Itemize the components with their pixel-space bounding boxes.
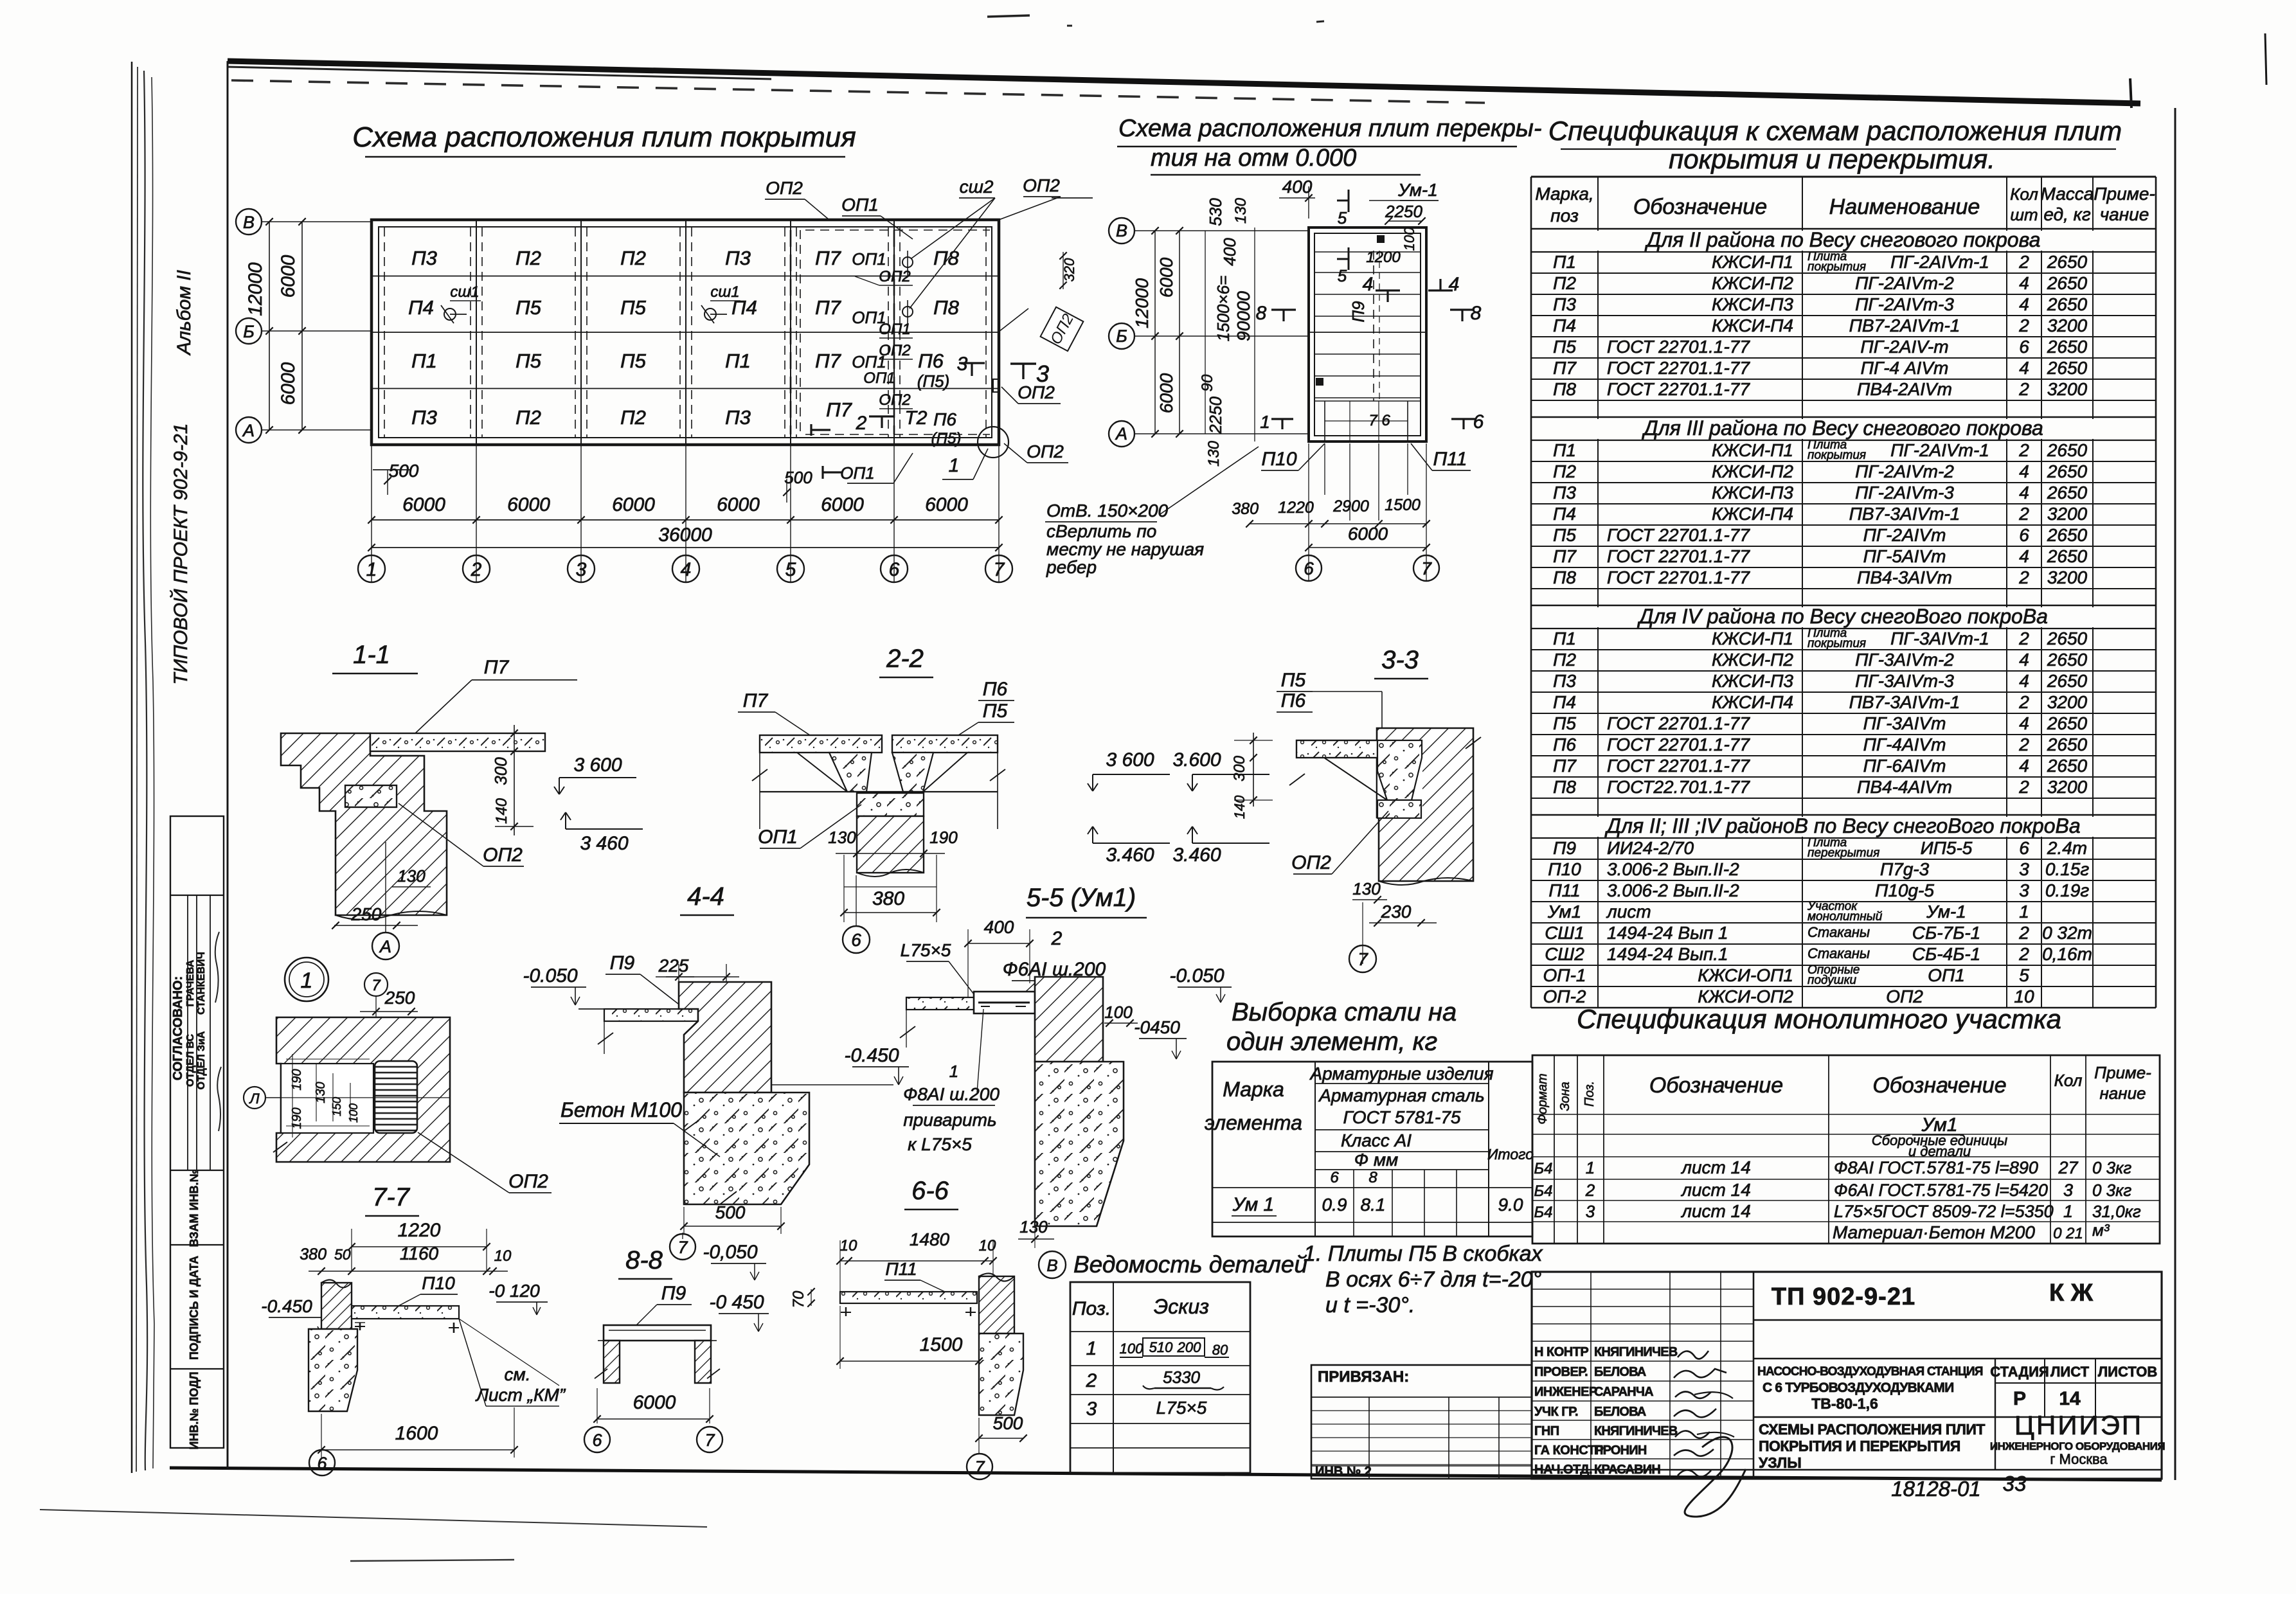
svg-text:и детали: и детали — [1908, 1143, 1971, 1159]
svg-text:10: 10 — [840, 1237, 857, 1254]
svg-text:4: 4 — [2019, 358, 2029, 378]
svg-text:ПВ4-2АIVт: ПВ4-2АIVт — [1857, 379, 1952, 399]
svg-text:ПВ4-3АIVт: ПВ4-3АIVт — [1857, 567, 1952, 587]
svg-text:-0.450: -0.450 — [844, 1045, 899, 1066]
svg-text:400: 400 — [1220, 238, 1239, 266]
svg-text:КЖСИ-П4: КЖСИ-П4 — [1712, 692, 1793, 712]
svg-text:Приме-: Приме- — [2094, 184, 2155, 204]
svg-text:ПГ-6АIVт: ПГ-6АIVт — [1863, 756, 1946, 776]
svg-text:месту не нарушая: месту не нарушая — [1046, 539, 1204, 559]
svg-text:8: 8 — [1471, 303, 1482, 324]
svg-text:Для IV района по Весу снегоВог: Для IV района по Весу снегоВого покроВа — [1637, 605, 2048, 628]
svg-text:ГОСТ 22701.1-77: ГОСТ 22701.1-77 — [1607, 525, 1750, 545]
svg-text:ПРИВЯЗАН:: ПРИВЯЗАН: — [1318, 1368, 1409, 1386]
svg-text:ПГ-3АIVт-1: ПГ-3АIVт-1 — [1890, 629, 1989, 648]
svg-text:3: 3 — [2019, 880, 2029, 900]
svg-text:2.4т: 2.4т — [2047, 838, 2087, 858]
svg-text:г Москва: г Москва — [2050, 1451, 2108, 1467]
svg-text:10: 10 — [494, 1247, 512, 1265]
svg-text:ТИПОВОЙ ПРОЕКТ 902-9-21: ТИПОВОЙ ПРОЕКТ 902-9-21 — [170, 424, 192, 685]
svg-text:Ф8АI ш.200: Ф8АI ш.200 — [903, 1084, 1000, 1104]
svg-text:ТП 902-9-21: ТП 902-9-21 — [1771, 1283, 1915, 1310]
svg-text:1494-24 Вып.1: 1494-24 Вып.1 — [1607, 944, 1728, 964]
svg-text:8.1: 8.1 — [1361, 1195, 1386, 1215]
svg-text:П6: П6 — [1281, 690, 1306, 711]
svg-text:П1: П1 — [1553, 440, 1576, 460]
svg-text:к L75×5: к L75×5 — [908, 1134, 972, 1154]
svg-text:КЖСИ-П3: КЖСИ-П3 — [1712, 483, 1793, 503]
svg-text:Наименование: Наименование — [1829, 195, 1980, 219]
svg-text:3.460: 3.460 — [1106, 844, 1154, 866]
svg-text:СШ1: СШ1 — [1545, 923, 1584, 943]
svg-text:чание: чание — [2100, 204, 2149, 224]
svg-text:А: А — [1115, 424, 1127, 443]
svg-text:Обозначение: Обозначение — [1633, 195, 1767, 219]
svg-text:3: 3 — [1086, 1398, 1097, 1420]
svg-text:С 6 ТУРБОВОЗДУХОДУВКАМИ: С 6 ТУРБОВОЗДУХОДУВКАМИ — [1762, 1380, 1953, 1395]
svg-text:6000: 6000 — [633, 1392, 676, 1413]
svg-text:П7: П7 — [1553, 546, 1577, 566]
svg-text:2650: 2650 — [2047, 273, 2088, 293]
svg-text:П3: П3 — [411, 247, 437, 269]
svg-text:ГОСТ 22701.1-77: ГОСТ 22701.1-77 — [1607, 567, 1750, 587]
svg-text:6000: 6000 — [278, 254, 299, 298]
svg-text:1: 1 — [949, 455, 960, 476]
svg-text:33: 33 — [2003, 1472, 2027, 1495]
svg-text:П11: П11 — [1548, 880, 1580, 900]
svg-text:ПГ-3АIVт-3: ПГ-3АIVт-3 — [1855, 671, 1954, 691]
svg-text:510: 510 — [1149, 1339, 1173, 1355]
svg-text:Л: Л — [248, 1091, 260, 1107]
svg-text:ИП5-5: ИП5-5 — [1921, 838, 1973, 858]
svg-text:П8: П8 — [933, 247, 959, 269]
svg-text:6000: 6000 — [1348, 524, 1388, 544]
svg-text:1500×6=: 1500×6= — [1214, 276, 1233, 342]
svg-text:ОП2: ОП2 — [508, 1171, 548, 1192]
svg-text:380: 380 — [300, 1245, 327, 1263]
svg-text:2: 2 — [2018, 944, 2029, 964]
svg-text:1500: 1500 — [1385, 496, 1421, 514]
svg-text:6: 6 — [2019, 337, 2029, 357]
svg-text:П10: П10 — [1548, 859, 1581, 879]
svg-text:П11: П11 — [1433, 449, 1467, 470]
svg-text:500: 500 — [993, 1413, 1023, 1433]
svg-text:П1: П1 — [1553, 629, 1576, 648]
svg-text:2: 2 — [2018, 692, 2029, 712]
svg-text:НАСОСНО-ВОЗДУХОДУВНАЯ СТАНЦИЯ: НАСОСНО-ВОЗДУХОДУВНАЯ СТАНЦИЯ — [1757, 1365, 1983, 1378]
svg-text:90000: 90000 — [1233, 291, 1253, 341]
svg-text:ИНВ.№ ПОДЛ: ИНВ.№ ПОДЛ — [188, 1371, 201, 1449]
svg-text:1480: 1480 — [910, 1229, 950, 1249]
svg-text:В осях 6÷7 для t=-20°: В осях 6÷7 для t=-20° — [1325, 1267, 1541, 1292]
svg-text:ГОСТ 22701.1-77: ГОСТ 22701.1-77 — [1607, 379, 1750, 399]
svg-text:3-3: 3-3 — [1381, 646, 1419, 674]
svg-text:П5: П5 — [516, 296, 541, 319]
svg-text:1: 1 — [2019, 902, 2029, 922]
svg-text:2: 2 — [2018, 504, 2029, 524]
svg-text:L75×5: L75×5 — [1156, 1398, 1207, 1418]
svg-text:-0.450: -0.450 — [261, 1296, 312, 1316]
svg-text:П7: П7 — [1553, 756, 1577, 776]
svg-text:СХЕМЫ РАСПОЛОЖЕНИЯ ПЛИТ: СХЕМЫ РАСПОЛОЖЕНИЯ ПЛИТ — [1759, 1421, 1985, 1438]
svg-text:50: 50 — [334, 1246, 351, 1263]
svg-text:П10g-5: П10g-5 — [1875, 880, 1934, 900]
svg-text:ОтВ. 150×200: ОтВ. 150×200 — [1046, 501, 1169, 521]
svg-text:3: 3 — [2019, 859, 2029, 879]
svg-text:ГОСТ22.701.1-77: ГОСТ22.701.1-77 — [1607, 777, 1750, 797]
svg-text:ОП2: ОП2 — [879, 342, 910, 359]
svg-text:(П5): (П5) — [917, 371, 950, 391]
svg-text:лист 14: лист 14 — [1680, 1157, 1751, 1177]
svg-text:П6: П6 — [918, 350, 944, 372]
svg-text:П7g-3: П7g-3 — [1880, 859, 1930, 879]
svg-text:П2: П2 — [1553, 650, 1576, 670]
svg-text:1160: 1160 — [400, 1244, 439, 1263]
svg-text:Марка,: Марка, — [1535, 184, 1593, 204]
svg-text:4: 4 — [681, 559, 692, 580]
svg-text:Ум 1: Ум 1 — [1232, 1194, 1274, 1215]
svg-text:-0,050: -0,050 — [703, 1242, 757, 1263]
svg-text:и t =-30°.: и t =-30°. — [1325, 1293, 1415, 1317]
svg-text:6000: 6000 — [402, 494, 445, 515]
svg-text:КЖСИ-П4: КЖСИ-П4 — [1712, 316, 1793, 335]
svg-text:5: 5 — [2019, 965, 2029, 985]
svg-text:1. Плиты П5 В скобках: 1. Плиты П5 В скобках — [1304, 1242, 1543, 1266]
svg-text:L75×5ГОСТ 8509-72 l=5350: L75×5ГОСТ 8509-72 l=5350 — [1834, 1202, 2054, 1221]
svg-text:ОП2: ОП2 — [483, 844, 523, 866]
svg-text:8: 8 — [1256, 303, 1267, 324]
svg-text:8-8: 8-8 — [625, 1246, 663, 1274]
svg-text:70: 70 — [790, 1290, 807, 1308]
svg-text:8: 8 — [1368, 1169, 1377, 1186]
svg-text:Кол: Кол — [2010, 184, 2038, 204]
svg-text:Р: Р — [2013, 1388, 2026, 1409]
svg-text:12000: 12000 — [1132, 278, 1152, 328]
svg-text:КЖСИ-П2: КЖСИ-П2 — [1712, 461, 1793, 481]
svg-text:190: 190 — [929, 828, 958, 847]
svg-text:БЕЛОВА: БЕЛОВА — [1594, 1405, 1646, 1419]
svg-text:2650: 2650 — [2047, 629, 2088, 648]
svg-text:3 600: 3 600 — [573, 754, 622, 776]
svg-text:Спецификация монолитного участ: Спецификация монолитного участка — [1577, 1004, 2061, 1034]
svg-text:П6: П6 — [983, 679, 1008, 700]
svg-text:1: 1 — [366, 559, 377, 580]
svg-text:ГОСТ 22701.1-77: ГОСТ 22701.1-77 — [1607, 546, 1750, 566]
svg-text:ПВ7-2АIVт-1: ПВ7-2АIVт-1 — [1849, 316, 1960, 335]
svg-text:500: 500 — [389, 461, 419, 481]
svg-text:П9: П9 — [1349, 301, 1368, 322]
svg-text:90: 90 — [1199, 374, 1216, 391]
svg-text:КЖСИ-П1: КЖСИ-П1 — [1712, 440, 1793, 460]
svg-text:36000: 36000 — [658, 524, 712, 546]
svg-text:2250: 2250 — [1206, 397, 1225, 434]
svg-text:ОП1: ОП1 — [1928, 965, 1965, 985]
svg-text:6000: 6000 — [717, 494, 760, 515]
svg-text:ОП2: ОП2 — [1023, 175, 1060, 195]
svg-text:Арматурная сталь: Арматурная сталь — [1318, 1085, 1484, 1105]
svg-text:3: 3 — [1586, 1202, 1595, 1221]
svg-text:1: 1 — [301, 968, 313, 993]
svg-text:1: 1 — [1586, 1158, 1595, 1177]
svg-text:7: 7 — [1358, 949, 1368, 969]
svg-text:4-4: 4-4 — [687, 882, 724, 911]
svg-text:4: 4 — [2019, 483, 2029, 503]
svg-text:Выборка стали на: Выборка стали на — [1232, 998, 1457, 1026]
svg-text:КЖСИ-П3: КЖСИ-П3 — [1712, 294, 1793, 314]
svg-text:Альбом II: Альбом II — [174, 270, 195, 356]
svg-text:П4: П4 — [408, 296, 434, 319]
svg-text:2: 2 — [2018, 923, 2029, 943]
svg-text:ПГ-2АIVт-1: ПГ-2АIVт-1 — [1890, 252, 1989, 272]
svg-text:Б4: Б4 — [1534, 1182, 1553, 1200]
svg-text:ОП1: ОП1 — [863, 370, 895, 387]
svg-text:Марка: Марка — [1223, 1078, 1284, 1101]
svg-text:14: 14 — [2059, 1388, 2081, 1409]
svg-text:0.9: 0.9 — [1322, 1195, 1347, 1215]
svg-text:0 21: 0 21 — [2053, 1225, 2083, 1242]
svg-text:0 3кг: 0 3кг — [2092, 1158, 2131, 1177]
svg-text:Б: Б — [243, 322, 255, 341]
svg-text:1: 1 — [949, 1062, 958, 1081]
svg-text:3 600: 3 600 — [1106, 749, 1154, 771]
svg-text:тия на отм 0.000: тия на отм 0.000 — [1151, 145, 1356, 172]
svg-text:БЕЛОВА: БЕЛОВА — [1594, 1365, 1646, 1379]
svg-text:Для III района по Весу снегово: Для III района по Весу снегового покрова — [1642, 416, 2043, 440]
svg-text:1494-24 Вып 1: 1494-24 Вып 1 — [1607, 923, 1728, 943]
svg-text:ПГ-4АIVт: ПГ-4АIVт — [1863, 735, 1946, 754]
svg-text:18128-01: 18128-01 — [1891, 1477, 1980, 1501]
svg-text:П3: П3 — [1553, 671, 1576, 691]
svg-text:ОП-1: ОП-1 — [1543, 965, 1586, 985]
svg-text:ПГ-2АIVт-3: ПГ-2АIVт-3 — [1855, 294, 1954, 314]
svg-text:6: 6 — [889, 559, 900, 580]
svg-text:Кол: Кол — [2054, 1071, 2083, 1090]
svg-text:ИНЖЕНЕР: ИНЖЕНЕР — [1534, 1385, 1597, 1399]
svg-text:500: 500 — [715, 1202, 746, 1222]
svg-text:ОП2: ОП2 — [1291, 852, 1331, 873]
svg-text:6000: 6000 — [507, 494, 550, 515]
svg-text:А: А — [379, 937, 391, 956]
svg-text:монолитный: монолитный — [1807, 910, 1883, 923]
svg-text:5330: 5330 — [1163, 1368, 1200, 1387]
svg-text:7-7: 7-7 — [372, 1183, 411, 1211]
svg-text:П9: П9 — [661, 1283, 686, 1304]
svg-text:ПГ-3АIVт: ПГ-3АIVт — [1863, 713, 1946, 733]
svg-text:3200: 3200 — [2047, 316, 2088, 335]
svg-text:К Ж: К Ж — [2049, 1280, 2094, 1307]
svg-text:покрытия: покрытия — [1807, 260, 1866, 274]
svg-text:П6: П6 — [933, 409, 956, 429]
svg-text:один элемент, кг: один элемент, кг — [1226, 1028, 1437, 1056]
svg-text:ГОСТ 5781-75: ГОСТ 5781-75 — [1343, 1107, 1460, 1127]
svg-text:6: 6 — [592, 1431, 602, 1450]
svg-text:Б: Б — [1116, 326, 1127, 346]
svg-text:ОП2: ОП2 — [1018, 382, 1055, 402]
svg-text:400: 400 — [1282, 177, 1313, 197]
svg-text:ПГ-4 АIVт: ПГ-4 АIVт — [1861, 358, 1949, 378]
svg-text:6: 6 — [2019, 525, 2029, 545]
svg-text:ГОСТ 22701.1-77: ГОСТ 22701.1-77 — [1607, 713, 1750, 733]
svg-text:П8: П8 — [933, 296, 959, 319]
svg-text:7: 7 — [704, 1431, 715, 1450]
svg-text:100: 100 — [1104, 1003, 1133, 1022]
svg-text:2650: 2650 — [2047, 525, 2088, 545]
svg-text:2650: 2650 — [2047, 546, 2088, 566]
svg-text:П2: П2 — [620, 247, 646, 269]
svg-text:П4: П4 — [1553, 692, 1576, 712]
svg-text:Класс АI: Класс АI — [1341, 1130, 1412, 1150]
svg-text:сш1: сш1 — [450, 283, 479, 301]
svg-text:ПОКРЫТИЯ И ПЕРЕКРЫТИЯ: ПОКРЫТИЯ И ПЕРЕКРЫТИЯ — [1759, 1438, 1960, 1454]
svg-text:Материал·Бетон М200: Материал·Бетон М200 — [1833, 1222, 2035, 1242]
svg-text:ПГ-3АIVт-2: ПГ-3АIVт-2 — [1855, 650, 1954, 670]
svg-text:130: 130 — [1205, 440, 1223, 467]
svg-text:3: 3 — [576, 559, 587, 580]
svg-text:КЖСИ-П2: КЖСИ-П2 — [1712, 650, 1793, 670]
svg-text:П5: П5 — [1553, 713, 1576, 733]
svg-text:КНЯГИНИЧЕВ: КНЯГИНИЧЕВ — [1594, 1424, 1678, 1438]
svg-text:нание: нание — [2100, 1084, 2146, 1103]
svg-text:см.: см. — [505, 1364, 531, 1384]
svg-text:2: 2 — [1585, 1181, 1595, 1200]
svg-text:КЖСИ-П4: КЖСИ-П4 — [1712, 504, 1793, 524]
svg-text:6: 6 — [1473, 411, 1484, 433]
svg-text:Схема расположения плит перекр: Схема расположения плит перекры- — [1118, 115, 1542, 142]
svg-text:0 32т: 0 32т — [2042, 923, 2092, 943]
svg-text:ПВ4-4АIVт: ПВ4-4АIVт — [1857, 777, 1952, 797]
svg-text:Обозначение: Обозначение — [1872, 1073, 2006, 1098]
svg-text:П5: П5 — [620, 350, 646, 372]
svg-text:П5: П5 — [1553, 525, 1576, 545]
svg-text:7 6: 7 6 — [1368, 412, 1390, 429]
svg-text:Обозначение: Обозначение — [1649, 1073, 1783, 1098]
svg-text:Лист „КМ”: Лист „КМ” — [475, 1385, 566, 1405]
svg-text:300: 300 — [1231, 755, 1248, 781]
svg-text:10: 10 — [979, 1237, 996, 1254]
svg-text:ТВ-80-1,6: ТВ-80-1,6 — [1811, 1395, 1878, 1412]
svg-text:6: 6 — [851, 930, 861, 950]
svg-text:шт: шт — [2010, 205, 2038, 224]
svg-text:3.600: 3.600 — [1172, 749, 1221, 771]
svg-text:2: 2 — [856, 413, 867, 434]
svg-text:П7: П7 — [815, 247, 841, 269]
svg-text:2: 2 — [2018, 777, 2029, 797]
svg-text:6000: 6000 — [1156, 373, 1176, 413]
svg-text:ОП2: ОП2 — [1027, 442, 1064, 461]
svg-text:П11: П11 — [885, 1259, 917, 1279]
svg-text:250: 250 — [351, 904, 382, 924]
svg-text:сш1: сш1 — [710, 283, 739, 301]
svg-text:ОП1: ОП1 — [879, 321, 910, 338]
svg-text:Ф мм: Ф мм — [1354, 1150, 1398, 1170]
svg-text:2: 2 — [2018, 629, 2029, 648]
svg-text:5: 5 — [1338, 208, 1347, 228]
svg-text:ПГ-2АIV-т: ПГ-2АIV-т — [1860, 337, 1948, 357]
svg-text:2: 2 — [2018, 316, 2029, 335]
svg-text:2650: 2650 — [2047, 713, 2088, 733]
svg-text:130: 130 — [1352, 879, 1381, 898]
svg-text:Для II района по Весу снеговог: Для II района по Весу снегового покрова — [1645, 228, 2041, 251]
svg-text:ОП1: ОП1 — [840, 463, 875, 483]
svg-text:6000: 6000 — [821, 494, 864, 515]
svg-text:6: 6 — [2019, 838, 2029, 858]
svg-text:Формат: Формат — [1536, 1073, 1550, 1124]
svg-text:80: 80 — [1212, 1342, 1228, 1358]
svg-text:2650: 2650 — [2047, 461, 2088, 481]
svg-text:140: 140 — [493, 798, 510, 824]
svg-text:ПРОВЕР.: ПРОВЕР. — [1534, 1365, 1588, 1379]
svg-text:6000: 6000 — [278, 362, 299, 405]
svg-text:2: 2 — [2018, 735, 2029, 754]
svg-text:ОТДЕЛ ЗиА: ОТДЕЛ ЗиА — [196, 1031, 207, 1089]
svg-text:3 460: 3 460 — [580, 833, 628, 854]
svg-text:L75×5: L75×5 — [901, 940, 951, 960]
svg-text:4: 4 — [2019, 294, 2029, 314]
svg-text:250: 250 — [384, 988, 415, 1008]
svg-text:140: 140 — [1232, 795, 1248, 819]
svg-text:П4: П4 — [1553, 316, 1576, 335]
svg-text:3.460: 3.460 — [1172, 844, 1221, 866]
svg-text:7: 7 — [974, 1458, 985, 1477]
svg-text:Ведомость деталей: Ведомость деталей — [1073, 1251, 1307, 1278]
svg-text:П3: П3 — [725, 247, 751, 269]
svg-text:-0.050: -0.050 — [523, 965, 577, 986]
svg-text:3.006-2 Вып.II-2: 3.006-2 Вып.II-2 — [1607, 859, 1739, 879]
svg-text:Для II; III ;IV районоВ по Вес: Для II; III ;IV районоВ по Весу снегоВог… — [1604, 814, 2080, 837]
svg-text:П7: П7 — [484, 657, 510, 678]
svg-text:6: 6 — [317, 1454, 327, 1473]
svg-text:П3: П3 — [1553, 483, 1576, 503]
svg-text:ОП2: ОП2 — [879, 391, 910, 409]
svg-text:КЖСИ-ОП1: КЖСИ-ОП1 — [1698, 965, 1793, 985]
svg-text:САРАНЧА: САРАНЧА — [1594, 1385, 1653, 1399]
svg-text:ПГ-5АIVт: ПГ-5АIVт — [1863, 546, 1946, 566]
svg-text:0,16т: 0,16т — [2042, 944, 2092, 964]
svg-text:2650: 2650 — [2047, 358, 2088, 378]
svg-text:Поз.: Поз. — [1583, 1081, 1597, 1107]
svg-text:ПВ7-3АIVт-1: ПВ7-3АIVт-1 — [1849, 692, 1960, 712]
svg-text:Спецификация к схемам располож: Спецификация к схемам расположения плит — [1548, 116, 2122, 146]
svg-text:2650: 2650 — [2047, 483, 2088, 503]
svg-text:2: 2 — [2018, 379, 2029, 399]
svg-text:100: 100 — [347, 1103, 360, 1123]
svg-text:В: В — [1046, 1256, 1057, 1275]
svg-text:2: 2 — [471, 559, 482, 580]
svg-text:7: 7 — [1421, 558, 1432, 578]
svg-text:4: 4 — [2019, 671, 2029, 691]
svg-text:ПГ-2АIVт: ПГ-2АIVт — [1863, 525, 1946, 545]
svg-text:УЧК ГР.: УЧК ГР. — [1534, 1405, 1578, 1419]
svg-text:ИНВ № 2: ИНВ № 2 — [1315, 1465, 1372, 1479]
svg-text:7: 7 — [677, 1238, 688, 1257]
svg-text:1500: 1500 — [920, 1334, 963, 1355]
svg-text:П8: П8 — [1553, 777, 1576, 797]
svg-text:7: 7 — [372, 977, 381, 994]
svg-text:6: 6 — [1304, 558, 1314, 578]
svg-text:П7: П7 — [826, 398, 852, 421]
svg-text:ГРАЧЕВА: ГРАЧЕВА — [185, 959, 196, 1006]
svg-text:П2: П2 — [516, 247, 541, 269]
svg-text:ПОДПИСЬ И ДАТА: ПОДПИСЬ И ДАТА — [188, 1256, 201, 1360]
svg-text:ПГ-2АIVт-3: ПГ-2АIVт-3 — [1855, 483, 1954, 503]
svg-text:2650: 2650 — [2047, 735, 2088, 754]
svg-text:Ум-1: Ум-1 — [1397, 180, 1438, 200]
svg-text:150: 150 — [330, 1097, 343, 1116]
svg-text:-0 450: -0 450 — [709, 1292, 764, 1313]
svg-text:Ф6АI ГОСТ.5781-75 l=5420: Ф6АI ГОСТ.5781-75 l=5420 — [1834, 1181, 2048, 1200]
svg-text:П1: П1 — [1553, 252, 1576, 272]
svg-text:2: 2 — [2018, 440, 2029, 460]
